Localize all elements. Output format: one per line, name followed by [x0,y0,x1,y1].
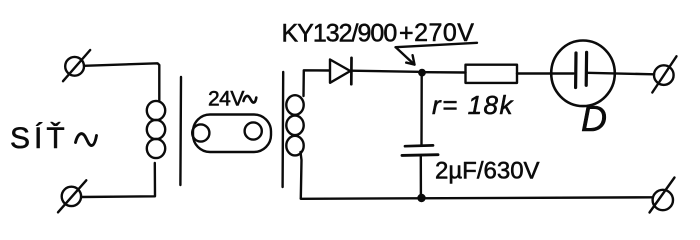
wire node down to capacitor [420,76,423,145]
bottom rail wire [301,197,652,199]
label KY132/900 [282,20,397,48]
wire resistor to flash tube [517,72,574,74]
label SÍŤ (mains) [10,122,69,155]
svg-text:SÍŤ: SÍŤ [10,122,69,155]
wire capacitor to bottom node [420,156,423,195]
wire top-left terminal to primary [84,63,159,101]
wire node to resistor [426,71,466,74]
wire flash tube to top-right terminal [587,73,654,75]
label r = 18k [432,90,514,120]
svg-text:2µF/630V: 2µF/630V [435,158,540,185]
label D [581,98,607,139]
node junction top [418,69,426,77]
svg-text:24V: 24V [208,88,244,111]
flash tube D [551,41,615,107]
label 2µF/630V [435,158,540,185]
node junction bottom [417,194,425,202]
transformer core bar left [179,77,182,185]
wire diode to node [352,71,419,72]
svg-text:KY132/900: KY132/900 [282,20,397,48]
arrow from +270V to node [396,48,415,65]
resistor r=18k [466,65,518,83]
label 24V~ [208,88,244,111]
svg-text:D: D [581,98,607,139]
svg-text:r= 18k: r= 18k [432,90,514,120]
tilde of SÍŤ~ [76,134,97,146]
transformer secondary winding [286,95,303,155]
diode KY132/900 [330,58,352,84]
transformer primary winding [147,101,165,158]
wire secondary top lead to diode [304,70,330,96]
transformer 24V winding (stadium loop) [192,115,271,153]
label +270V [399,19,475,47]
terminal bottom-left [58,180,86,212]
wire bottom-left terminal to primary [81,163,155,197]
wire secondary bottom lead [301,152,302,199]
terminal top-right [652,56,676,92]
terminal top-left [63,50,90,81]
terminal bottom-right [650,178,675,213]
transformer core bar right [281,72,284,187]
capacitor 2uF/630V [402,145,438,155]
underline of +270V [396,43,478,47]
tilde of 24V~ [244,96,257,103]
